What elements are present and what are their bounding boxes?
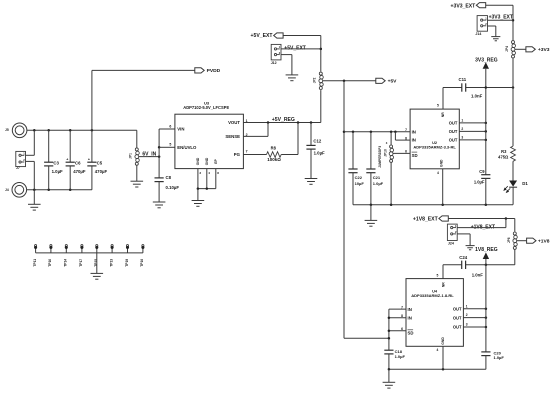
wire U4 input join — [388, 309, 406, 350]
IC U4 ADP3335ARMZ-1.8 regulator — [406, 279, 463, 347]
connector J7 — [16, 151, 26, 170]
svg-text:PG: PG — [234, 152, 241, 157]
svg-text:R3: R3 — [501, 149, 507, 154]
wire JP2 bottom to +5V_REG rail — [320, 90, 322, 122]
svg-text:1.0µF: 1.0µF — [373, 181, 384, 186]
node 3V3_REG arrow — [475, 58, 498, 175]
ground below J4 rail — [28, 190, 41, 210]
svg-text:+3V3_EXT: +3V3_EXT — [451, 4, 477, 10]
svg-text:OUT: OUT — [449, 121, 458, 126]
wire U2 IN rail — [344, 131, 410, 134]
test point TP17 — [79, 245, 83, 267]
test point TP10 — [48, 245, 52, 267]
ground below C12 — [305, 179, 318, 185]
wire 6V top rail — [27, 129, 137, 131]
svg-text:J7: J7 — [16, 166, 20, 170]
svg-text:IN: IN — [408, 316, 412, 321]
svg-text:3: 3 — [199, 171, 201, 175]
capacitor C5 — [87, 130, 107, 190]
svg-text:1.0µF: 1.0µF — [52, 169, 63, 174]
svg-text:0.10µF: 0.10µF — [166, 185, 180, 190]
svg-text:IN: IN — [412, 138, 416, 143]
svg-text:TP19: TP19 — [125, 259, 129, 267]
wire J12 pin1 — [281, 48, 321, 50]
svg-text:4: 4 — [437, 348, 439, 352]
wire U2 NR riser — [442, 88, 444, 110]
wire JP1 bottom to ground — [136, 165, 138, 181]
svg-text:C8: C8 — [166, 175, 172, 180]
svg-text:IN: IN — [412, 129, 416, 134]
ground below J14 — [491, 37, 500, 41]
ground below test point rail — [91, 253, 104, 279]
capacitor C18 — [384, 349, 405, 369]
svg-text:TP14: TP14 — [64, 259, 68, 267]
svg-text:2: 2 — [466, 313, 468, 317]
capacitor C24 — [459, 255, 483, 278]
svg-text:3: 3 — [466, 323, 468, 327]
svg-text:ADP3335ARMZ-3.3-RL: ADP3335ARMZ-3.3-RL — [413, 145, 456, 150]
connector J24 — [447, 224, 495, 246]
svg-text:ADP3335ARMZ-1.8-RL: ADP3335ARMZ-1.8-RL — [411, 293, 454, 298]
wire U3 VOUT rail +5V_REG — [243, 117, 320, 124]
node 1V8_REG arrow — [475, 247, 498, 265]
svg-text:PVDD: PVDD — [207, 68, 221, 74]
svg-text:SD: SD — [408, 331, 414, 336]
resistor R3 — [498, 88, 515, 181]
svg-text:SD: SD — [412, 153, 418, 158]
svg-text:R8: R8 — [271, 146, 277, 151]
svg-text:SENSE: SENSE — [225, 134, 240, 139]
wire J7 pin1 to 6V rail — [26, 130, 35, 155]
svg-text:5: 5 — [169, 143, 171, 147]
svg-text:7: 7 — [246, 149, 248, 153]
jumper JP4 — [505, 41, 515, 58]
svg-text:TP16: TP16 — [140, 259, 144, 267]
capacitor C8 — [155, 175, 180, 202]
svg-text:8: 8 — [217, 171, 219, 175]
wire +3V3_EXT feed — [486, 5, 515, 40]
svg-text:TP17: TP17 — [79, 259, 83, 267]
wire U4 OUT pins — [463, 307, 487, 328]
svg-text:JP6: JP6 — [507, 237, 511, 243]
svg-text:1.0µF: 1.0µF — [494, 355, 505, 360]
capacitor C9 — [474, 169, 491, 205]
svg-text:4: 4 — [208, 171, 210, 175]
svg-text:OUT: OUT — [453, 315, 462, 320]
svg-text:C11: C11 — [459, 77, 467, 82]
wire JP10 tap to SD — [393, 152, 410, 154]
wire U2 GND pin — [442, 169, 444, 205]
wire U3 PG — [243, 149, 266, 154]
svg-text:+5V_EXT: +5V_EXT — [284, 45, 306, 51]
svg-text:C3: C3 — [53, 160, 59, 165]
svg-text:1.0µF: 1.0µF — [314, 151, 325, 156]
wire VIN net riser — [158, 129, 175, 178]
wire J14 pin2 to ground — [488, 26, 496, 37]
wire U2 pin8 feed — [395, 132, 410, 140]
svg-text:8: 8 — [405, 136, 407, 140]
wire 1V8 output vertical — [485, 265, 487, 352]
wire U4 GND pin — [442, 346, 444, 369]
ground below J12 — [286, 75, 299, 81]
svg-text:EN/UVLO: EN/UVLO — [177, 145, 197, 150]
U4 pin numbers — [401, 274, 468, 352]
resistor R8 — [267, 146, 282, 163]
svg-text:OUT: OUT — [453, 306, 462, 311]
test point TP13 — [109, 245, 113, 267]
svg-text:6: 6 — [405, 150, 407, 154]
svg-text:C22: C22 — [355, 175, 363, 180]
wire J14 pin1 — [488, 19, 514, 21]
node +5V_EXT flag — [251, 33, 284, 39]
wire J24 pin1 — [457, 219, 506, 228]
capacitor C11 — [459, 77, 483, 99]
svg-text:C12: C12 — [313, 139, 321, 144]
svg-text:+5V_EXT: +5V_EXT — [251, 33, 274, 39]
wire JP10 bottom to ground rail — [390, 162, 392, 204]
svg-text:470µF: 470µF — [73, 169, 86, 174]
svg-text:+5V: +5V — [388, 79, 398, 85]
svg-text:TP15: TP15 — [94, 259, 98, 267]
svg-text:475Ω: 475Ω — [498, 155, 509, 160]
svg-text:IN: IN — [408, 307, 412, 312]
connector J14 — [475, 15, 513, 37]
svg-text:J5: J5 — [5, 128, 9, 132]
IC U2 ADP3335ARMZ-3.3 regulator — [410, 109, 459, 169]
svg-text:100kΩ: 100kΩ — [267, 157, 281, 162]
node top rail junctions — [33, 129, 93, 132]
wire +5V tap — [323, 80, 376, 83]
LED D1 — [504, 181, 528, 205]
capacitor C3 — [44, 130, 63, 190]
svg-text:2: 2 — [461, 127, 463, 131]
wire PVDD — [92, 70, 195, 130]
svg-text:C21: C21 — [373, 175, 381, 180]
wire U4 NR riser — [442, 265, 444, 279]
node +1V8 flag — [527, 238, 550, 245]
connector J4 — [5, 183, 27, 198]
test point TP14 — [64, 245, 68, 267]
svg-text:TP10: TP10 — [48, 259, 52, 267]
svg-text:TP11: TP11 — [33, 259, 37, 267]
test point TP11 — [33, 245, 37, 267]
svg-text:GND: GND — [441, 337, 445, 345]
wire 6V_IN tap — [139, 151, 161, 158]
wire +1V8_EXT feed — [448, 217, 515, 231]
svg-text:JP1: JP1 — [129, 153, 133, 159]
svg-text:1: 1 — [461, 118, 463, 122]
svg-text:NR: NR — [442, 282, 446, 287]
svg-text:OUT: OUT — [449, 129, 458, 134]
ground below J24 — [466, 246, 475, 250]
svg-text:J14: J14 — [475, 32, 481, 36]
node +3V3 flag — [526, 47, 550, 54]
svg-text:VIN: VIN — [177, 127, 184, 132]
svg-text:NR: NR — [441, 112, 445, 117]
svg-text:C9: C9 — [479, 169, 485, 174]
svg-text:+3V3: +3V3 — [538, 47, 550, 53]
wire +5V_EXT to JP2 — [283, 36, 322, 72]
IC U3 ADP7102-5.0V regulator — [175, 101, 244, 169]
U2 pin numbers — [405, 104, 463, 176]
svg-text:6V_IN: 6V_IN — [142, 151, 156, 157]
svg-text:1: 1 — [246, 119, 248, 123]
wire test point rail — [36, 252, 143, 254]
wire J7 pin2 to ground rail — [26, 161, 35, 189]
wire R8 to VOUT rail — [281, 123, 298, 155]
svg-text:3: 3 — [461, 135, 463, 139]
svg-text:C5: C5 — [97, 160, 103, 165]
svg-text:JP4: JP4 — [505, 46, 509, 52]
ground below U3 — [192, 201, 205, 207]
node +1V8_EXT flag — [413, 216, 448, 223]
wire J24 pin2 to ground — [457, 234, 470, 246]
svg-text:7: 7 — [405, 128, 407, 132]
node +5V flag — [376, 78, 397, 84]
svg-text:1V8_REG: 1V8_REG — [475, 247, 498, 253]
svg-text:GND: GND — [440, 159, 444, 167]
wire U4 ground rail — [388, 368, 486, 382]
wire +5V distribution vertical — [343, 81, 389, 338]
jumper JP2 — [313, 72, 324, 89]
svg-text:+: + — [88, 158, 90, 162]
wire JP4 bottom to rail — [512, 58, 514, 87]
capacitor C6 — [66, 130, 86, 190]
svg-text:1.0µF: 1.0µF — [474, 179, 485, 184]
svg-text:JP10: JP10 — [383, 149, 387, 157]
svg-text:J12: J12 — [271, 61, 277, 65]
wire analog ground rail — [353, 203, 513, 206]
svg-text:JP2: JP2 — [313, 77, 317, 83]
ground below JP1 — [131, 181, 144, 187]
jumper JP1 — [129, 148, 140, 165]
connector J5 — [5, 123, 27, 138]
svg-text:4: 4 — [437, 171, 439, 175]
ground below U4 rail — [383, 382, 396, 388]
capacitor C20 — [481, 350, 504, 369]
svg-text:470µF: 470µF — [95, 169, 108, 174]
wire +3V3 tap — [515, 48, 526, 50]
svg-text:+1V8: +1V8 — [538, 239, 550, 245]
svg-text:3V3_REG: 3V3_REG — [475, 58, 498, 64]
U3 pin 6 VIN — [169, 124, 171, 128]
svg-text:ADP7102-5.0V_LFCSP8: ADP7102-5.0V_LFCSP8 — [183, 105, 229, 110]
svg-text:D1: D1 — [522, 181, 528, 186]
wire +1V8 tap — [517, 240, 527, 242]
svg-text:5: 5 — [437, 104, 439, 108]
svg-text:10µF: 10µF — [355, 181, 365, 186]
node PVDD flag — [195, 68, 221, 74]
svg-text:C24: C24 — [459, 255, 467, 260]
svg-text:C6: C6 — [75, 160, 81, 165]
U3 GND pins to ground — [197, 169, 220, 201]
svg-text:5: 5 — [437, 274, 439, 278]
ground below C8 — [153, 202, 166, 208]
jumper JP10 — [378, 132, 394, 168]
wire C11 rail — [443, 86, 514, 89]
wire ground bottom rail — [27, 189, 92, 192]
svg-text:1.0nF: 1.0nF — [471, 94, 483, 99]
svg-text:1.0nF: 1.0nF — [472, 273, 484, 278]
wire U2 OUT pins — [459, 122, 487, 141]
U3 pin 5 EN — [169, 143, 171, 147]
ground below rail — [365, 205, 378, 227]
wire U3 SENSE loop — [243, 123, 268, 138]
svg-text:+: + — [66, 158, 68, 162]
capacitor C12 — [306, 123, 325, 179]
wire J12 pin2 to ground — [281, 55, 292, 75]
svg-text:1: 1 — [466, 304, 468, 308]
svg-text:+5V_REG: +5V_REG — [272, 117, 295, 123]
svg-text:GND: GND — [205, 157, 209, 165]
test point TP16 — [140, 245, 144, 267]
svg-text:+1V8_EXT: +1V8_EXT — [413, 217, 439, 223]
svg-text:EP: EP — [214, 159, 218, 164]
svg-text:J24: J24 — [448, 241, 454, 245]
svg-text:J4: J4 — [5, 188, 9, 192]
wire EN/UVLO — [159, 146, 175, 148]
node +3V3_EXT flag — [451, 3, 486, 10]
jumper JP6 — [507, 232, 517, 249]
svg-text:2: 2 — [246, 133, 248, 137]
capacitor C21 — [366, 132, 383, 205]
capacitor C22 — [348, 132, 364, 205]
svg-text:OUT: OUT — [449, 138, 458, 143]
svg-text:+3V3_EXT: +3V3_EXT — [489, 15, 513, 21]
test point TP19 — [125, 245, 129, 267]
wire 6V rail down to JP1 — [136, 130, 138, 148]
svg-text:1.0µF: 1.0µF — [395, 354, 406, 359]
svg-text:GND: GND — [196, 157, 200, 165]
svg-text:6: 6 — [169, 124, 171, 128]
wire JP6 bottom to C24 rail — [443, 250, 515, 267]
svg-text:JUMPER2SIP3: JUMPER2SIP3 — [378, 146, 382, 168]
svg-text:OUT: OUT — [453, 325, 462, 330]
connector J12 — [271, 44, 306, 65]
svg-text:TP13: TP13 — [109, 259, 113, 267]
test point TP15 — [94, 245, 98, 267]
svg-text:VOUT: VOUT — [228, 120, 240, 125]
